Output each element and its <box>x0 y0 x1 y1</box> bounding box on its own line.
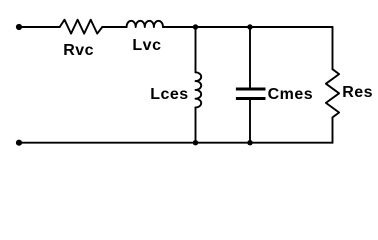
wire Res branch lower segment <box>332 117 334 142</box>
resistor R2 Res <box>326 69 339 117</box>
wire top-left from input terminal to Rvc <box>19 26 60 28</box>
inductor L2 Lces <box>196 72 202 107</box>
node junction top Cmes <box>247 24 252 29</box>
svg-text:Res: Res <box>342 84 373 101</box>
wire Cmes branch lower segment <box>249 100 251 143</box>
node junction bottom Lces <box>193 140 198 145</box>
wire Cmes branch upper segment <box>249 27 251 88</box>
capacitor C1 Cmes plates <box>236 89 266 99</box>
wire bottom rail <box>19 142 333 144</box>
inductor L1 Lvc <box>127 21 163 27</box>
wire Lces branch upper segment <box>195 27 197 72</box>
svg-text:Rvc: Rvc <box>63 42 94 59</box>
wire top rail from Lvc to top-right corner <box>163 26 333 28</box>
wire Lces branch lower segment <box>195 108 197 143</box>
node junction top Lces <box>193 24 198 29</box>
wire Res branch upper segment <box>332 27 334 69</box>
svg-text:Cmes: Cmes <box>268 86 314 103</box>
node input terminal top-left <box>16 24 22 30</box>
node input terminal bottom-left <box>16 140 22 146</box>
svg-text:Lvc: Lvc <box>132 37 161 54</box>
resistor R1 Rvc <box>60 20 103 34</box>
node junction bottom Cmes <box>247 140 252 145</box>
svg-text:Lces: Lces <box>150 86 188 103</box>
wire between Rvc and Lvc <box>102 26 126 28</box>
